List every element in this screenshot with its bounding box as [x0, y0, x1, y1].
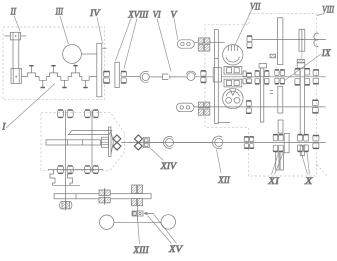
- headstock dashed box: [3, 27, 105, 100]
- tiny hatched pinion a: [270, 54, 276, 58]
- pair far right main shaft: [313, 70, 319, 76]
- jaw clutch VI: [163, 74, 169, 80]
- svg-text:XI: XI: [267, 176, 280, 187]
- gear pair A: [104, 72, 110, 77]
- cluster x302 pairs: [295, 69, 300, 75]
- leader XI: [272, 153, 284, 175]
- tumbler staircase 1: [50, 170, 55, 186]
- leader VII: [235, 10, 252, 45]
- svg-text:X: X: [304, 176, 314, 187]
- pair shaft3 x250: [246, 101, 251, 106]
- gearbox dashed box: [205, 14, 327, 176]
- hatched slider block: [101, 137, 108, 147]
- coupling ring mid: [166, 138, 174, 146]
- hatched gear stack lower: [198, 102, 210, 115]
- cluster x302 plate: [300, 68, 304, 135]
- motor III: [63, 45, 82, 64]
- leader III: [60, 16, 68, 44]
- shaft I gear cone: [22, 73, 97, 80]
- gear IV tall wheel: [97, 43, 102, 97]
- apron vertical shaft 2: [91, 110, 93, 173]
- barrels shaft1 bottom: [58, 166, 64, 173]
- shaft VIII line: [252, 39, 326, 41]
- rack cluster 1: [99, 190, 110, 203]
- handwheel link: [114, 221, 161, 223]
- barrels shaft2 bottom: [85, 166, 91, 173]
- vertical rect x280 mid: [278, 87, 283, 114]
- svg-text:II: II: [10, 7, 17, 18]
- main shaft in gearbox: [222, 76, 326, 78]
- apron dashed box: [41, 112, 125, 170]
- apron vertical shaft 1: [65, 110, 67, 211]
- bevel cone bar end: [108, 127, 111, 156]
- leader II: [14, 16, 20, 32]
- vertical link rects: [278, 120, 283, 133]
- svg-text:III: III: [55, 7, 64, 18]
- tumbler staircase 2: [68, 170, 73, 186]
- bevel pair 2: [135, 135, 143, 143]
- overrun clutch clip VIII: [314, 33, 319, 46]
- pair bottom x316: [313, 136, 319, 142]
- svg-text:IV: IV: [89, 8, 101, 19]
- friction clutch upper drum: [223, 45, 243, 65]
- cone stems up: [31, 66, 75, 73]
- rack cluster 2: [132, 185, 143, 206]
- chain drive lower: [176, 103, 194, 112]
- overrunning clutch XVI: [140, 71, 148, 82]
- gear pair D outer: [243, 71, 246, 77]
- tiny hatched pinion b: [297, 59, 304, 63]
- pairs flanking sleeve 2: [255, 71, 259, 77]
- leader XIV: [150, 148, 164, 161]
- clutch plates upper: [224, 66, 242, 74]
- gear pair D inner: [247, 73, 252, 77]
- leader IV: [97, 18, 103, 44]
- clutch plates lower: [224, 79, 242, 87]
- pair bottom x251: [249, 137, 253, 142]
- handwheel right: [161, 215, 175, 229]
- leader XVIII: [116, 19, 138, 69]
- feed selector link: [137, 206, 139, 222]
- pulley bottom: [11, 68, 22, 83]
- cluster bottom plate: [284, 133, 289, 152]
- leader I: [6, 84, 55, 129]
- gear XVIII tall: [115, 62, 119, 87]
- main shaft mid segment: [126, 76, 140, 78]
- leader XII: [217, 150, 222, 174]
- feed selector box: [132, 211, 143, 216]
- chain drive V: [177, 40, 194, 48]
- sleeve 2: [260, 68, 263, 122]
- svg-text:XII: XII: [217, 175, 230, 186]
- slide parallelogram: [68, 131, 112, 135]
- apron lower shaft: [48, 169, 103, 171]
- tall gear shaft VIII: [278, 18, 283, 65]
- pulley top II: [10, 32, 20, 40]
- cluster bottom x303 pairs: [298, 135, 303, 141]
- coupling ring XII: [215, 138, 223, 146]
- rack bar: [54, 194, 151, 199]
- sleeve gear: [213, 68, 221, 82]
- leader XV: [148, 214, 177, 244]
- vertical sleeve shaft: [215, 30, 219, 124]
- barrels shaft2 top: [85, 110, 91, 117]
- rack pinion: [62, 202, 66, 209]
- gear pair B: [121, 72, 126, 77]
- svg-text:XIV: XIV: [160, 161, 177, 172]
- leader V: [174, 18, 178, 40]
- apron spline bar: [46, 140, 100, 145]
- leader VIII: [317, 14, 325, 16]
- arrow: [144, 212, 154, 214]
- leader IX: [284, 54, 321, 81]
- svg-text:XIII: XIII: [132, 245, 149, 256]
- pair bottom x246: [244, 137, 249, 142]
- shaft 3 line: [194, 106, 326, 108]
- coupling ring: [187, 73, 195, 81]
- barrels shaft1 top: [58, 110, 64, 117]
- pair shaft3 x316: [313, 100, 319, 105]
- leader XIII: [138, 223, 140, 245]
- cone stems down: [43, 80, 86, 87]
- tumbler base: [53, 184, 81, 186]
- friction clutch lower drum: [223, 88, 243, 108]
- gear on shaft VIII: [299, 29, 305, 51]
- bearing ticks: [270, 91, 273, 94]
- safety clutch XIV: [143, 137, 149, 147]
- leader VI: [157, 19, 171, 72]
- bottom shaft line: [121, 141, 326, 143]
- pair on shaft VIII: [247, 36, 252, 42]
- gear pair C: [201, 71, 206, 76]
- svg-text:XV: XV: [168, 244, 183, 255]
- cluster bottom x278 pairs: [273, 135, 278, 141]
- pairs x279 main shaft: [275, 70, 279, 76]
- cluster x302 cap: [297, 63, 305, 69]
- leader X: [301, 152, 310, 175]
- svg-text:VII: VII: [250, 2, 261, 13]
- hatched gear stack top: [198, 38, 210, 51]
- svg-text:IX: IX: [321, 48, 332, 59]
- belt: [12, 40, 14, 69]
- handwheel left: [100, 215, 114, 229]
- bevel pair 1: [113, 135, 121, 143]
- sleeve 2 cap: [259, 64, 267, 68]
